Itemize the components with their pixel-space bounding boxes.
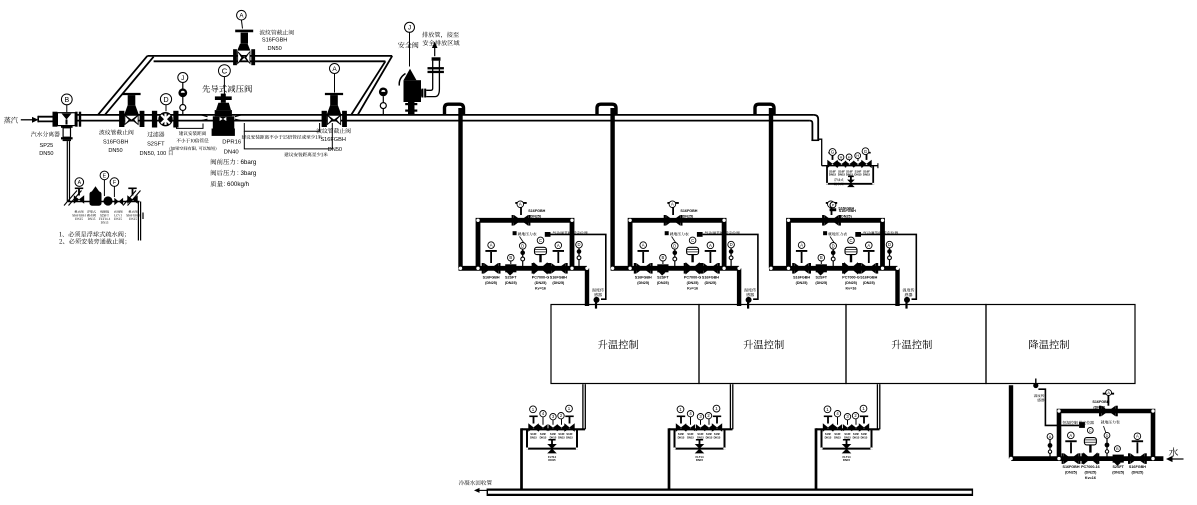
label PRV xian-dao-shi-jian-ya-fa <box>202 85 210 93</box>
tag circle C water control valve <box>1087 428 1093 434</box>
svg-text:B: B <box>662 255 665 260</box>
trap station 2 isolating valve 1 <box>676 423 681 431</box>
note 2 bypass valve required <box>59 239 62 244</box>
tag circle A bypass valve station 2 <box>669 201 676 208</box>
number tag 1 <box>530 406 537 413</box>
tag circle A bypass valve station 1 <box>517 201 524 208</box>
svg-text:D: D <box>730 242 733 247</box>
svg-text:Kv=16: Kv=16 <box>687 286 698 290</box>
svg-text:S16FGBH: S16FGBH <box>320 137 346 143</box>
station 1 temperature sensing line <box>551 234 606 299</box>
label heng-wen-kong-zhi <box>1063 421 1067 424</box>
trap station 2 check valve 2 <box>704 424 709 431</box>
control valve station 3 <box>769 108 916 309</box>
tag circle B strainer station 1 <box>510 258 512 264</box>
heat exchanger box 1 (heating control) <box>551 305 699 384</box>
svg-text:SP25: SP25 <box>40 143 54 149</box>
svg-text:(DN25): (DN25) <box>657 281 670 285</box>
chilled water supply line <box>1011 456 1163 461</box>
station 2 main line <box>611 266 740 271</box>
label box2 sheng-wen-kong-zhi <box>744 340 753 349</box>
pilot-operated pressure reducing valve DPR16 <box>221 94 226 103</box>
station 2 label pneumatic valve <box>705 231 709 234</box>
outlet globe valve <box>127 195 132 203</box>
svg-text:B: B <box>820 255 823 260</box>
tag circle A <box>1068 432 1075 439</box>
main line strainer S2SFT <box>152 111 157 128</box>
number tag 2 <box>852 413 858 419</box>
tag circle G <box>829 149 836 156</box>
svg-text:B: B <box>64 97 69 104</box>
tag circle A inlet valve station 1 <box>488 242 495 249</box>
svg-text:S16FGBH: S16FGBH <box>680 209 697 213</box>
svg-text:(DN25): (DN25) <box>505 281 518 285</box>
branch riser 1 from header <box>458 108 462 268</box>
separator drain trap station <box>64 171 143 240</box>
svg-text:A: A <box>800 243 803 248</box>
number tag 1 (outlet) <box>860 405 867 412</box>
svg-text:A: A <box>557 243 560 248</box>
control valve station 2 <box>611 108 758 309</box>
svg-text:S16F: S16F <box>853 432 860 436</box>
trap station 1 isolating valve 1 <box>528 423 533 431</box>
station 2 temperature sensing line <box>703 234 758 299</box>
svg-text:H: H <box>840 156 843 160</box>
number tag 3 <box>697 414 703 420</box>
station 1 sensing tap square <box>545 232 551 237</box>
dimension bracket (at least 1m) <box>244 123 332 149</box>
trap station 3 isolating valve 1 <box>823 423 828 431</box>
station 1 label pneumatic valve <box>553 231 557 234</box>
number tag 2 <box>705 413 711 419</box>
steam inlet label zheng-qi <box>4 117 11 124</box>
note 1 float trap required <box>59 232 61 237</box>
svg-text:S16FGBH: S16FGBH <box>702 276 719 280</box>
sight glass <box>103 196 112 205</box>
condensate return header <box>487 489 972 491</box>
float trap <box>90 192 102 206</box>
label an-quan-fa <box>398 42 404 48</box>
label strainer guo-lv-qi <box>147 132 152 137</box>
station 3 label local gauge <box>823 231 827 235</box>
svg-text:DN50: DN50 <box>108 148 122 154</box>
condensate trap station 1 <box>522 384 586 489</box>
steam inlet flow arrow <box>21 119 33 121</box>
trap station 1 lower trap loop <box>527 429 577 448</box>
water strainer <box>1113 455 1124 463</box>
svg-text:C: C <box>222 67 228 76</box>
svg-text:DN15: DN15 <box>678 435 685 439</box>
station 3 inlet globe valve <box>792 263 794 274</box>
trap station 1 isolating valve 5 <box>564 423 569 431</box>
svg-text:F: F <box>113 180 116 186</box>
separator drain line <box>68 201 140 203</box>
svg-text:(DN25): (DN25) <box>681 215 694 219</box>
tag circle H <box>846 154 852 160</box>
svg-text:S16F: S16F <box>687 432 694 436</box>
tag circle C control valve station 1 <box>537 237 544 244</box>
svg-text:S16FGBH: S16FGBH <box>860 276 877 280</box>
svg-text:A: A <box>332 66 337 73</box>
station 1 main line <box>459 266 588 271</box>
station 2 bypass globe valve <box>664 215 666 226</box>
station 1 temperature sensor <box>594 297 600 303</box>
svg-text:S16FGBH: S16FGBH <box>550 276 567 280</box>
svg-text:A: A <box>490 243 493 248</box>
svg-text:(DN25): (DN25) <box>1131 471 1144 475</box>
svg-text:D: D <box>832 243 835 248</box>
separator drain spool and drop pipe <box>61 126 73 128</box>
svg-text:C: C <box>849 238 852 243</box>
trap station 3 isolating valve 5 <box>859 423 864 431</box>
number tag 4 <box>834 411 840 417</box>
svg-text:(DN25): (DN25) <box>840 215 853 219</box>
station 3 label pneumatic valve <box>863 231 867 234</box>
station 2 outlet globe valve <box>701 263 703 274</box>
slope break marks left <box>64 191 77 206</box>
station 2 pressure gauge <box>674 249 676 266</box>
svg-text:(DN25): (DN25) <box>552 281 565 285</box>
branch 1 take-off hop over header <box>445 104 464 115</box>
drain station line <box>822 165 878 167</box>
svg-text:(DN25): (DN25) <box>529 215 542 219</box>
trap station 3 main line <box>816 428 880 430</box>
sensing line from box4 sensor to control valve <box>1038 389 1079 425</box>
tag circle A outlet valve station 1 <box>555 242 562 249</box>
svg-text:S16F: S16F <box>825 432 832 436</box>
dimension bracket (15 pipe diameters) <box>244 123 319 131</box>
station 2 sensing tap square <box>697 232 703 237</box>
branch 3 take-off hop over header <box>755 104 774 115</box>
trap station 2 main line <box>669 428 733 430</box>
drain manifold loop <box>827 166 873 184</box>
pressure gauge with siphon (tag J) <box>182 83 184 115</box>
label leng-ning-shui-hui-shou-guan <box>459 480 464 485</box>
trap station 1 condensate down leg <box>520 428 523 489</box>
bypass bellows globe valve <box>233 49 237 65</box>
header-end drain station <box>818 139 878 211</box>
svg-text:Kv=16: Kv=16 <box>846 286 857 290</box>
svg-text:DN15: DN15 <box>697 435 704 439</box>
tiny component labels <box>75 210 78 213</box>
svg-text:D: D <box>163 95 168 104</box>
station 2 pneumatic control valve <box>686 262 693 274</box>
svg-text:S16FGBH: S16FGBH <box>1092 400 1109 404</box>
svg-text:H: H <box>848 155 851 159</box>
station 1 bypass globe valve <box>512 215 514 226</box>
svg-text:DN50, 100: DN50, 100 <box>140 151 167 157</box>
station 3 strainer <box>816 264 827 272</box>
svg-text:G: G <box>864 149 868 154</box>
svg-text:: 6barg: : 6barg <box>237 159 257 166</box>
tag circle C control valve station 3 <box>848 237 855 244</box>
station 3 main line <box>769 266 898 271</box>
float trap at manifold bottom <box>847 180 855 184</box>
trap station 3 strainer valve 4 <box>833 424 838 431</box>
svg-text:S2SFT: S2SFT <box>816 276 828 280</box>
water bypass globe valve <box>1099 406 1101 417</box>
svg-text:(DN25): (DN25) <box>863 281 876 285</box>
station 3 temperature sensing line <box>861 234 916 299</box>
tag circle D (strainer) <box>165 105 167 111</box>
label PRV downstream pressure <box>211 170 216 176</box>
water sensing tap square <box>1079 422 1085 428</box>
tag circle B water strainer <box>1114 446 1120 452</box>
inlet flange <box>53 112 58 127</box>
svg-text:S16FGBH: S16FGBH <box>1129 465 1146 469</box>
tag circle A inlet valve station 3 <box>798 242 805 249</box>
tag circle A <box>75 178 84 187</box>
svg-text:(DN25): (DN25) <box>796 281 809 285</box>
station 3 sensing tap square <box>855 232 861 237</box>
number tag 3 <box>550 414 556 420</box>
safety valve with discharge stack <box>408 101 415 115</box>
svg-text:(DN25): (DN25) <box>687 281 700 285</box>
station 3 outlet globe valve <box>859 263 861 274</box>
tag circle B (separator) <box>66 105 68 112</box>
label PRV upstream pressure <box>211 159 216 165</box>
svg-text:DN50: DN50 <box>328 147 342 153</box>
svg-text:S16FGBH: S16FGBH <box>1062 465 1079 469</box>
water outlet globe valve (right) <box>1128 453 1130 464</box>
svg-text:DN15: DN15 <box>558 435 565 439</box>
svg-text:B: B <box>1116 447 1119 451</box>
branch 2 take-off hop over header <box>597 104 616 115</box>
dimension bracket (10 pipe diameters) <box>177 124 204 129</box>
label box4 jiang-wen-kong-zhi <box>1029 340 1038 349</box>
number tag 1 (outlet) <box>566 405 573 412</box>
tag circle C control valve station 2 <box>689 237 696 244</box>
svg-text:A: A <box>78 180 82 186</box>
return header flow arrow <box>478 489 487 491</box>
trap station 2 condensate down leg <box>668 428 671 489</box>
tag circle J (safety valve) <box>409 32 411 66</box>
tag circle J (gauge) <box>178 73 188 83</box>
branch riser 3 from header <box>769 108 773 268</box>
svg-text:H: H <box>856 154 859 158</box>
station 1 outlet globe valve <box>549 263 551 274</box>
station 3 pneumatic control valve <box>844 262 851 274</box>
station 3 bypass loop <box>789 220 883 268</box>
svg-text:DN15: DN15 <box>548 458 556 462</box>
svg-text:DN15: DN15 <box>696 458 704 462</box>
water inlet globe valve (left) <box>1062 453 1064 464</box>
svg-text:S16F: S16F <box>834 432 841 436</box>
discharge arrow up <box>434 47 436 56</box>
svg-text:A: A <box>867 243 870 248</box>
tag circle A outlet valve station 2 <box>707 242 714 249</box>
svg-text:S16F: S16F <box>530 432 537 436</box>
trap station 1 main line <box>522 428 586 430</box>
station 3 temperature sensor <box>904 297 910 303</box>
svg-text:C: C <box>691 238 694 243</box>
svg-text:D: D <box>1106 434 1109 438</box>
svg-text:DN15: DN15 <box>540 435 547 439</box>
water line gauge (mid) <box>1106 438 1108 457</box>
drain valve 3 <box>845 161 850 168</box>
note text ru-guo-kong-jian <box>170 146 171 150</box>
station 3 bypass globe valve <box>822 215 824 226</box>
station 1 pneumatic control valve <box>534 262 541 274</box>
box4 temperature sensor <box>1033 383 1038 388</box>
svg-text:S16FGBH: S16FGBH <box>793 276 810 280</box>
station 2 outlet drop to heat exchanger <box>737 268 741 306</box>
svg-text:S16F: S16F <box>706 432 713 436</box>
svg-text:Kv=16: Kv=16 <box>1085 476 1096 480</box>
station 2 label local gauge <box>665 231 669 235</box>
svg-text:A: A <box>642 243 645 248</box>
station 2 bypass loop <box>630 220 724 268</box>
svg-text:(DN25): (DN25) <box>1093 406 1106 410</box>
svg-text:DN15: DN15 <box>846 173 854 177</box>
tag circle A inlet valve station 2 <box>640 242 647 249</box>
svg-text:DPR16: DPR16 <box>222 139 242 145</box>
svg-text:C: C <box>1089 429 1092 433</box>
station 1 inlet globe valve <box>482 263 484 274</box>
control valve station 1 <box>459 108 606 309</box>
heat exchanger box 3 (heating control) <box>846 305 986 384</box>
condensate trap station 2 <box>669 384 733 489</box>
note text zhi-shao-1-mi <box>284 152 288 156</box>
svg-text:S16F: S16F <box>844 432 851 436</box>
trap station 3 check valve 2 <box>851 424 856 431</box>
downstream pressure gauge <box>382 96 384 115</box>
svg-text:DN15: DN15 <box>854 173 862 177</box>
drain valve 2 <box>837 161 842 168</box>
trap station 1 drop from heat exchanger <box>582 384 584 429</box>
svg-text:DN40: DN40 <box>224 150 240 156</box>
svg-text:S16FGBH: S16FGBH <box>103 139 129 145</box>
svg-text:(DN25): (DN25) <box>1084 471 1097 475</box>
svg-text:(DN25): (DN25) <box>535 281 548 285</box>
svg-text:(DN25): (DN25) <box>485 281 498 285</box>
svg-text:DN15: DN15 <box>825 435 832 439</box>
svg-text:(DN25): (DN25) <box>845 281 858 285</box>
svg-text:DN15: DN15 <box>566 435 573 439</box>
trap station 1 trap valve 3 <box>548 424 553 431</box>
number tag 3 <box>844 414 850 420</box>
cooling water valve station <box>1009 379 1163 480</box>
water inlet flow arrow <box>1172 458 1184 460</box>
note text bu-xiao-yu-10-bei <box>176 139 180 143</box>
tag circle A outlet valve station 3 <box>866 242 873 249</box>
svg-text:Kv=16: Kv=16 <box>535 286 546 290</box>
svg-text:S16FGBH: S16FGBH <box>635 276 652 280</box>
station 2 inlet globe valve <box>634 263 636 274</box>
trap station 3 condensate down leg <box>815 428 818 489</box>
station 1 label local gauge <box>513 231 517 235</box>
trap station 3 trap valve 3 <box>843 424 848 431</box>
svg-text:DN15: DN15 <box>853 435 860 439</box>
svg-text:DN15: DN15 <box>687 435 694 439</box>
svg-text:S16F: S16F <box>540 432 547 436</box>
trap station 3 drop from heat exchanger <box>876 384 878 429</box>
tag circle B strainer station 2 <box>662 258 664 264</box>
water line gauge (left) <box>1049 439 1051 457</box>
water riser into cooling box <box>1009 385 1013 458</box>
svg-text:S16F: S16F <box>550 432 557 436</box>
station 1 bypass loop <box>478 220 572 268</box>
label PRV mass flow <box>210 181 216 187</box>
svg-text:S16F: S16F <box>714 432 721 436</box>
svg-text:DN50: DN50 <box>267 46 281 52</box>
steam separator SP25 <box>57 113 75 126</box>
svg-text:DN15: DN15 <box>843 458 851 462</box>
number tag 1 <box>677 406 684 413</box>
svg-text:DN15: DN15 <box>550 435 557 439</box>
svg-text:(DN25): (DN25) <box>1065 471 1078 475</box>
svg-text:PC7000-G: PC7000-G <box>684 276 702 280</box>
trap station 1 strainer valve 4 <box>538 424 543 431</box>
note text jian-yi-an-zhuang-ju-li <box>179 131 183 135</box>
drain valve 4 <box>853 161 858 168</box>
label valve2 bo-wen-guan-jie-zhi-fa <box>316 128 321 133</box>
svg-text:B: B <box>509 255 512 260</box>
svg-text:DN15: DN15 <box>829 173 837 177</box>
label box1 sheng-wen-kong-zhi <box>598 340 607 349</box>
label valve1 bo-wen-guan-jie-zhi-fa <box>99 130 104 135</box>
svg-text:J: J <box>181 75 184 82</box>
station 2 downstream gauge <box>730 248 732 266</box>
svg-text:DN15: DN15 <box>834 435 841 439</box>
station 1 strainer <box>505 264 516 272</box>
svg-text:S2SFT: S2SFT <box>147 142 165 148</box>
svg-text:: 600kg/h: : 600kg/h <box>224 181 250 188</box>
number tag 4 <box>540 411 546 417</box>
svg-text:G: G <box>831 150 835 155</box>
reducer before PRV <box>201 115 208 117</box>
svg-text:D: D <box>673 243 676 248</box>
header end drop to drain station <box>818 139 822 166</box>
svg-text:S2SFT: S2SFT <box>1112 465 1124 469</box>
tag circle B strainer station 3 <box>820 258 822 264</box>
svg-text:DN15: DN15 <box>530 435 537 439</box>
svg-text:DN50: DN50 <box>39 151 53 157</box>
label pai-fang-guan-jie-zhi <box>422 32 428 38</box>
trap station 3 float trap on loop <box>842 444 852 449</box>
station 3 outlet drop to heat exchanger <box>895 268 899 306</box>
bellows globe valve 2 (main line) <box>322 111 327 127</box>
station 1 pressure gauge <box>522 249 524 266</box>
svg-text:(DN25): (DN25) <box>637 281 650 285</box>
tag circle H <box>855 153 861 159</box>
station 2 strainer <box>657 264 668 272</box>
svg-text:A: A <box>671 202 674 207</box>
svg-text:D: D <box>521 243 524 248</box>
trap station 1 float trap on loop <box>547 444 557 449</box>
number tag 1 (outlet) <box>713 405 720 412</box>
drain valve 5 <box>861 160 866 168</box>
slope break marks right <box>123 191 136 206</box>
svg-text:E: E <box>103 173 107 179</box>
tag circle G <box>862 148 869 155</box>
label shui (water) <box>1169 447 1178 456</box>
main steam header pipe <box>38 116 57 118</box>
note text 15-bei-guan-jing <box>242 135 246 139</box>
svg-text:C: C <box>539 238 542 243</box>
trap station 2 lower trap loop <box>675 429 725 448</box>
svg-text:S2SFT: S2SFT <box>505 276 517 280</box>
svg-text:S16F: S16F <box>558 432 565 436</box>
reducer after PRV <box>235 115 242 117</box>
station 1 downstream gauge <box>578 248 580 266</box>
svg-text:DN15: DN15 <box>863 173 871 177</box>
tag circle E <box>103 180 105 197</box>
svg-text:DN15: DN15 <box>714 435 721 439</box>
svg-text:: 3barg: : 3barg <box>237 170 257 177</box>
svg-text:A: A <box>1136 434 1139 439</box>
svg-text:D: D <box>577 242 580 247</box>
